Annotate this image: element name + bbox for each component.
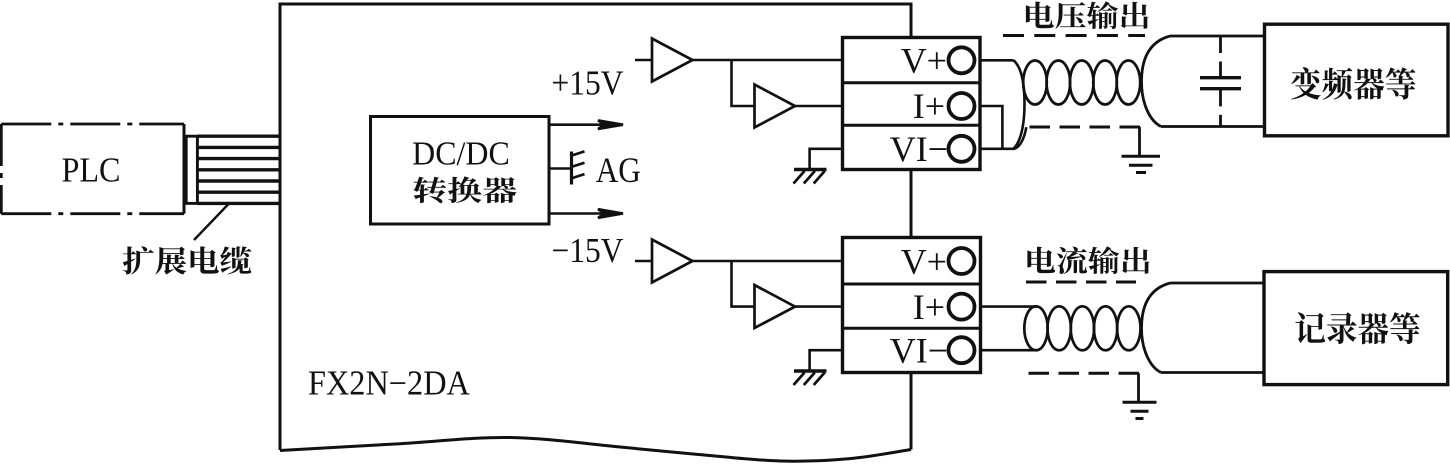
wire I+ to twisted pair 2 <box>980 305 1037 308</box>
twisted pair first large loop <box>1014 60 1025 149</box>
expansion cable connector <box>186 136 197 203</box>
AG analog-ground symbol <box>570 151 584 184</box>
DC/DC converter U1 box <box>371 117 550 225</box>
+15V supply arrow <box>549 120 623 129</box>
wire rise to shield line <box>1014 127 1026 149</box>
-15V supply arrow <box>549 209 623 218</box>
inverter load box <box>1265 24 1449 136</box>
wire A2 output to I+ terminal <box>795 105 843 108</box>
svg-text:+15V: +15V <box>552 64 624 103</box>
label 变频器等 (inverter etc.) <box>1291 67 1416 99</box>
capacitor C1 dashed lead <box>1219 36 1222 127</box>
FX2N-2DA module box outline with wavy bottom <box>280 4 911 461</box>
wire tap to A4 input <box>732 261 755 307</box>
twisted pair loops (voltage) <box>1023 61 1140 105</box>
recorder load box <box>1264 272 1448 385</box>
svg-text:PLC: PLC <box>61 152 120 191</box>
svg-text:AG: AG <box>596 151 641 190</box>
svg-text:V+: V+ <box>901 241 947 281</box>
wire tap to A2 input <box>732 60 755 106</box>
shield dashed outline top (current) <box>1026 281 1136 284</box>
twisted pair loops (current) <box>1024 306 1140 350</box>
wire VI- to twisted pair 2 <box>980 349 1037 352</box>
terminal block TB2 <box>843 238 981 373</box>
op-amp buffer A2 <box>755 85 796 128</box>
PLC box (chain-line border) <box>1 124 184 214</box>
svg-text:VI−: VI− <box>890 330 948 370</box>
label 电流输出 (current output) <box>1027 246 1149 274</box>
cable jacket opening (voltage) <box>1142 36 1265 127</box>
terminal screw VI- <box>949 136 975 162</box>
wire VI- terminal 1 to chassis ground <box>810 149 843 170</box>
chassis ground G2 <box>794 371 827 385</box>
shield drain to earth (current) <box>1137 373 1140 402</box>
leader line to cable label <box>194 204 229 241</box>
svg-text:V+: V+ <box>901 41 947 81</box>
terminal screw V+ <box>949 47 975 73</box>
svg-text:FX2N−2DA: FX2N−2DA <box>308 364 470 402</box>
label 扩展电缆 (expansion cable) <box>123 246 252 274</box>
jumper I+ to VI- <box>980 106 1003 149</box>
terminal screw VI- 2 <box>949 337 975 363</box>
label 记录器等 (recorder etc.) <box>1295 312 1419 344</box>
label 电压输出 (voltage output) <box>1026 1 1148 29</box>
shield dashed outline bottom (voltage) <box>1027 126 1141 129</box>
earth ground E2 <box>1123 402 1157 418</box>
wire V+ to twisted pair <box>980 59 1014 62</box>
shield dashed outline top (voltage) <box>1003 34 1145 37</box>
TB2 row dividers <box>843 284 981 328</box>
AG net stub wire <box>549 167 571 170</box>
op-amp buffer A3 <box>652 240 693 283</box>
svg-text:I+: I+ <box>913 287 945 327</box>
expansion cable ribbon wires <box>197 136 281 203</box>
wire A1 output to V+ terminal <box>693 59 844 62</box>
earth ground E1 <box>1122 156 1161 172</box>
terminal screw I+ 2 <box>949 294 975 320</box>
capacitor C1 plates <box>1200 78 1241 89</box>
svg-text:VI−: VI− <box>890 129 948 169</box>
cable jacket opening (current) <box>1142 283 1265 373</box>
wire VI- terminal 2 to chassis ground <box>810 350 843 371</box>
op-amp buffer A1 input stub <box>635 59 652 62</box>
shield drain to earth (voltage) <box>1138 127 1141 156</box>
op-amp buffer A4 <box>755 285 796 328</box>
wire A3 output to V+ terminal 2 <box>693 260 844 263</box>
chassis ground G1 <box>794 170 827 184</box>
terminal screw I+ <box>949 93 975 119</box>
wire A4 output to I+ terminal 2 <box>795 305 843 308</box>
DC/DC label line 2 转换器 (converter) <box>413 176 516 203</box>
TB1 row dividers <box>843 83 981 126</box>
op-amp buffer A1 <box>652 39 693 82</box>
shield dashed outline bottom (current) <box>1026 372 1139 375</box>
wire VI- to twisted pair <box>980 148 1016 151</box>
svg-text:I+: I+ <box>913 86 945 126</box>
op-amp buffer A3 input stub <box>635 260 652 263</box>
svg-text:−15V: −15V <box>552 231 624 270</box>
terminal screw V+ 2 <box>949 248 975 274</box>
svg-text:DC/DC: DC/DC <box>412 136 510 173</box>
terminal block TB1 <box>843 38 981 170</box>
